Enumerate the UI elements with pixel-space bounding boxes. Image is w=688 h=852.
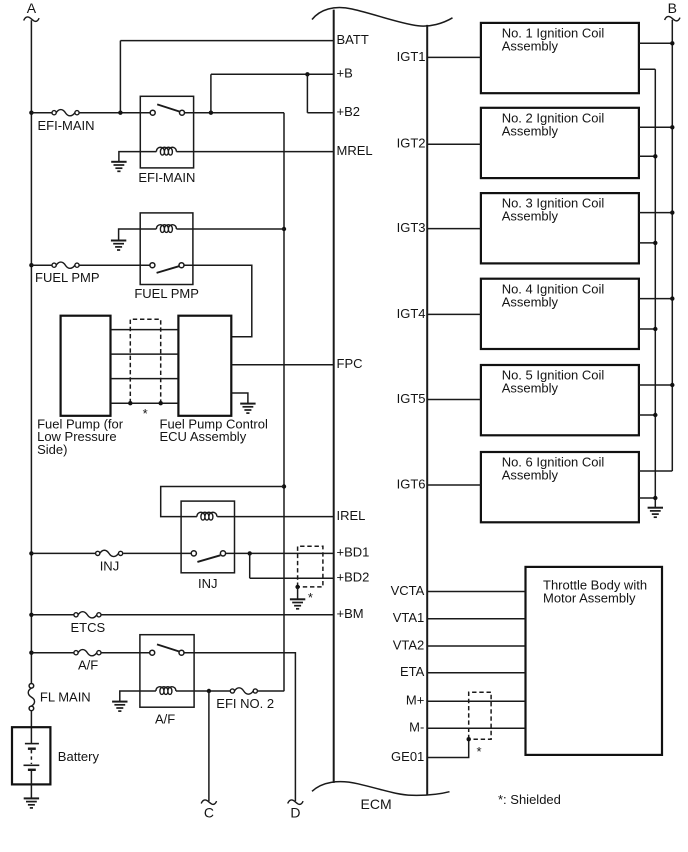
svg-text:IGT6: IGT6 <box>397 476 426 491</box>
wire A to EFI-MAIN fuse <box>31 112 52 114</box>
relay EFI-MAIN switch blade <box>157 104 179 111</box>
wire FUEL PMP coil to bus +B <box>193 228 284 230</box>
wire C drop <box>208 691 210 801</box>
wire A to INJ fuse <box>31 552 95 554</box>
svg-text:Motor Assembly: Motor Assembly <box>543 591 636 606</box>
wire +B2 drop <box>306 74 308 113</box>
node A / INJ fuse junction <box>29 551 33 555</box>
wire A to FUEL PMP fuse <box>31 264 52 266</box>
ignition coil box 4 <box>481 279 639 349</box>
svg-text:VTA1: VTA1 <box>393 610 425 625</box>
wire coil ground bus vertical <box>654 69 656 507</box>
wire +B riser <box>210 74 212 112</box>
relay A/F coil <box>156 687 176 695</box>
fuse EFI NO. 2 <box>230 688 257 694</box>
svg-text:+BD2: +BD2 <box>337 569 370 584</box>
svg-text:EFI-MAIN: EFI-MAIN <box>138 170 195 185</box>
fuel pump box <box>61 316 111 416</box>
node A / EFI-MAIN fuse junction <box>29 111 33 115</box>
svg-text:Assembly: Assembly <box>502 294 559 309</box>
battery middle dashed link <box>30 750 32 764</box>
wire BATT to ECM <box>120 40 333 42</box>
node shield right junction <box>159 401 163 405</box>
svg-text:FUEL PMP: FUEL PMP <box>35 270 100 285</box>
relay EFI-MAIN box <box>140 96 193 168</box>
wire EFI NO.2 fuse to bus +B <box>258 690 284 692</box>
svg-text:A/F: A/F <box>78 658 98 673</box>
relay FUEL PMP switch contacts <box>150 263 155 268</box>
ground battery <box>24 798 39 808</box>
wire coil 3 ground branch <box>639 242 655 244</box>
node +B feed junction <box>209 111 213 115</box>
ECM bottom break curve <box>312 782 450 796</box>
battery plate short bottom <box>28 769 36 771</box>
wire coil 5 power <box>639 384 672 386</box>
wire coil 5 ground branch <box>639 414 655 416</box>
connector D break symbol <box>288 800 303 804</box>
svg-text:IREL: IREL <box>337 508 366 523</box>
relay A/F box <box>140 635 194 708</box>
svg-text:VCTA: VCTA <box>391 583 425 598</box>
wire pump-ECU 1 <box>111 329 179 331</box>
wire FUEL PMP coil to ground <box>119 229 141 241</box>
wire coil leads INJ <box>181 516 234 518</box>
battery plate long bottom <box>24 764 40 766</box>
wire A/F coil to ground <box>120 691 140 702</box>
wire bus +B vertical (EFI-MAIN relay output) <box>283 113 285 692</box>
connector B break symbol <box>665 16 680 20</box>
wire GE01 to shield <box>427 739 469 757</box>
ignition coil box 3 <box>481 193 639 263</box>
wire +BD2 drop <box>249 553 251 578</box>
svg-text:ETCS: ETCS <box>71 620 106 635</box>
node ground bus / coil 4 <box>653 327 657 331</box>
ignition coil box 6 <box>481 452 639 522</box>
wire +B to ECM <box>211 73 334 75</box>
relay A/F switch contacts <box>150 650 155 655</box>
node C branch junction <box>207 689 211 693</box>
node +B2 branch junction <box>305 72 309 76</box>
node ground bus / coil 3 <box>653 241 657 245</box>
wire VTA2 <box>427 645 525 647</box>
wire bus B vertical <box>671 20 673 471</box>
wire INJ fuse to relay <box>123 552 191 554</box>
wire EFI-MAIN coil to ground <box>119 152 140 162</box>
fusible link FL MAIN <box>29 684 34 689</box>
battery plate short top <box>28 748 36 750</box>
shield box M+/M- <box>469 692 491 739</box>
wire pump-ECU 2 <box>111 353 179 355</box>
svg-text:+B2: +B2 <box>337 104 361 119</box>
node ground bus / coil 6 <box>653 496 657 500</box>
wire coil 2 ground branch <box>639 155 655 157</box>
node shield M drain junction <box>467 737 471 741</box>
wire coil 2 power <box>639 126 672 128</box>
svg-text:GE01: GE01 <box>391 749 424 764</box>
relay FUEL PMP switch blade <box>157 266 179 273</box>
wire IGT2 <box>427 143 481 145</box>
node bus +B / FUEL PMP coil <box>282 227 286 231</box>
wire coil leads EFI-MAIN <box>140 151 193 153</box>
node ground bus / coil 5 <box>653 413 657 417</box>
svg-text:Battery: Battery <box>58 749 100 764</box>
svg-text:ETA: ETA <box>400 664 425 679</box>
relay FUEL PMP coil <box>156 225 176 233</box>
wire ETA <box>427 672 525 674</box>
node ground bus / coil 2 <box>653 154 657 158</box>
node +BD2 branch junction <box>248 551 252 555</box>
wire pump-ECU 3 <box>111 378 179 380</box>
wire EFI-MAIN switch output <box>185 112 285 114</box>
ECM top break curve <box>312 8 453 27</box>
battery plate long top <box>25 743 39 745</box>
shield box +BD1/+BD2 <box>298 546 323 587</box>
wire coil 4 power <box>639 298 672 300</box>
svg-text:IGT2: IGT2 <box>397 136 426 151</box>
svg-text:MREL: MREL <box>337 143 373 158</box>
ECM left boundary line <box>333 10 335 783</box>
svg-text:IGT1: IGT1 <box>397 49 426 64</box>
svg-text:ECM: ECM <box>361 796 392 812</box>
wire coil 3 power <box>639 212 672 214</box>
svg-text:A/F: A/F <box>155 711 175 726</box>
relay EFI-MAIN coil <box>156 147 176 155</box>
relay FUEL PMP box <box>140 213 193 285</box>
wire coil 6 ground branch <box>639 497 655 499</box>
wire M- <box>427 727 525 729</box>
relay INJ switch blade <box>197 555 220 562</box>
relay A/F switch blade <box>157 644 179 651</box>
svg-text:*: Shielded: *: Shielded <box>498 792 561 807</box>
wire coil 6 power <box>639 470 672 472</box>
wire VCTA <box>427 591 525 593</box>
svg-text:C: C <box>204 804 214 820</box>
wire +BD2 to ECM <box>250 577 334 579</box>
relay EFI-MAIN switch contacts <box>150 110 155 115</box>
relay INJ switch contacts <box>191 551 196 556</box>
svg-text:INJ: INJ <box>100 558 120 573</box>
shield box fuel pump wires <box>130 319 160 403</box>
throttle body box <box>526 567 663 755</box>
wire FPC pin to ECM <box>231 364 333 366</box>
svg-text:*: * <box>308 590 313 605</box>
fuse FUEL PMP <box>52 262 79 268</box>
svg-text:INJ: INJ <box>198 576 218 591</box>
wire +BM to ECM <box>101 614 333 616</box>
battery box <box>12 727 50 784</box>
node A / A-F fuse junction <box>29 651 33 655</box>
wire A/F switch output to D <box>184 653 295 802</box>
node B / coil 4 <box>670 296 674 300</box>
wire IGT4 <box>427 313 481 315</box>
wire MREL to ECM <box>194 151 334 153</box>
wire coil 4 ground branch <box>639 328 655 330</box>
wire IGT1 <box>427 56 481 58</box>
wire BATT riser <box>119 41 121 113</box>
wire battery to ground <box>30 770 32 799</box>
node B / coil 5 <box>670 383 674 387</box>
svg-text:FUEL PMP: FUEL PMP <box>134 286 199 301</box>
svg-text:ECU Assembly: ECU Assembly <box>160 429 247 444</box>
svg-text:EFI-MAIN: EFI-MAIN <box>38 118 95 133</box>
wire FL MAIN to battery <box>30 711 32 744</box>
wire A/F fuse to relay <box>101 652 149 654</box>
svg-text:Assembly: Assembly <box>502 209 559 224</box>
node A / ETCS fuse junction <box>29 613 33 617</box>
wire FUEL PMP fuse to relay <box>79 264 150 266</box>
svg-text:*: * <box>477 744 482 759</box>
fuse INJ <box>96 550 123 556</box>
svg-text:Assembly: Assembly <box>502 381 559 396</box>
fuse EFI-MAIN <box>52 110 79 116</box>
node A / FUEL PMP fuse junction <box>29 263 33 267</box>
wire IREL to ECM <box>235 516 334 518</box>
svg-text:M-: M- <box>409 720 424 735</box>
wire pump-ECU 4 (shield drain) <box>111 402 179 404</box>
fuse ETCS <box>74 612 101 618</box>
wire coil leads A/F <box>140 690 194 692</box>
relay INJ coil <box>197 512 217 520</box>
ground ignition coils <box>648 508 663 518</box>
wire IGT3 <box>427 228 481 230</box>
node shield +BD drain junction <box>295 585 299 589</box>
wire +BD1 to ECM <box>226 552 334 554</box>
ground FUEL PMP relay <box>111 241 126 251</box>
wire IGT6 <box>427 484 481 486</box>
wire bus A vertical <box>30 20 32 683</box>
ground EFI-MAIN relay <box>111 162 126 172</box>
wire EFI-MAIN fuse to relay <box>79 112 150 114</box>
svg-text:EFI NO. 2: EFI NO. 2 <box>216 696 274 711</box>
svg-text:A: A <box>27 0 37 16</box>
node shield left junction <box>128 401 132 405</box>
wire coil leads FUEL PMP <box>140 228 193 230</box>
wire IGT5 <box>427 399 481 401</box>
fuel pump control ECU box <box>178 316 231 416</box>
ignition coil box 2 <box>481 108 639 178</box>
svg-text:Side): Side) <box>37 442 67 457</box>
node B / coil 1 <box>670 41 674 45</box>
node BATT feed junction <box>118 111 122 115</box>
fuse A/F <box>74 650 101 656</box>
node B / coil 3 <box>670 210 674 214</box>
wire A/F coil to EFI NO.2 fuse <box>194 690 230 692</box>
ground A/F relay <box>112 702 127 712</box>
svg-text:BATT: BATT <box>337 32 369 47</box>
svg-text:FL MAIN: FL MAIN <box>40 689 91 704</box>
svg-text:M+: M+ <box>406 693 424 708</box>
connector A break symbol <box>24 17 39 21</box>
ground shield +BD <box>290 599 305 609</box>
wire shield +BD to ground <box>297 587 299 599</box>
wire A to ETCS fuse <box>31 614 74 616</box>
ignition coil box 1 <box>481 23 639 93</box>
svg-text:B: B <box>668 0 677 16</box>
svg-text:VTA2: VTA2 <box>393 637 425 652</box>
wire A to A/F fuse <box>31 652 74 654</box>
svg-text:Assembly: Assembly <box>502 123 559 138</box>
wire +B2 to ECM <box>307 112 333 114</box>
svg-text:*: * <box>143 406 148 421</box>
svg-text:Assembly: Assembly <box>502 468 559 483</box>
svg-text:IGT4: IGT4 <box>397 306 426 321</box>
connector C break symbol <box>201 800 216 804</box>
ground fuel pump control ECU <box>240 404 255 414</box>
svg-text:IGT3: IGT3 <box>397 220 426 235</box>
node B / coil 2 <box>670 125 674 129</box>
ignition coil box 5 <box>481 365 639 435</box>
svg-text:Assembly: Assembly <box>502 39 559 54</box>
svg-text:+B: +B <box>337 66 353 81</box>
node bus +B / INJ coil <box>282 484 286 488</box>
svg-text:FPC: FPC <box>337 356 363 371</box>
relay INJ box <box>181 501 234 573</box>
svg-text:D: D <box>290 804 300 820</box>
wire VTA1 <box>427 618 525 620</box>
svg-text:+BD1: +BD1 <box>337 545 370 560</box>
wire M+ <box>427 700 525 702</box>
wire coil 1 ground branch <box>639 68 655 70</box>
svg-text:+BM: +BM <box>337 606 364 621</box>
wire coil 1 power <box>639 42 672 44</box>
wire FUEL PMP switch output to FPC ECU <box>184 265 252 337</box>
wire INJ coil feed from bus +B <box>161 487 284 517</box>
wire FPC ECU to ground <box>231 393 248 404</box>
ECM right boundary line <box>426 25 428 795</box>
svg-text:IGT5: IGT5 <box>397 391 426 406</box>
